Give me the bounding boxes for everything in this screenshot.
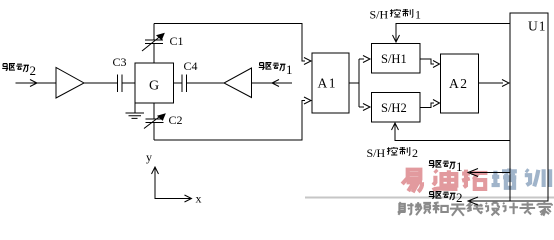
wire: 驱动1 output from U1 with arrow [468,169,510,177]
label 驱动2 (top left) [2,63,36,78]
watermark logo char 训 [525,169,550,187]
watermark underline [305,197,554,199]
watermark logo char 培 [492,169,517,188]
svg-text:S/H1: S/H1 [381,52,407,66]
svg-text:1: 1 [415,8,421,22]
svg-text:x: x [196,192,202,206]
svg-text:2: 2 [412,146,418,160]
watermark logo char 拓 [462,170,487,189]
variable capacitor C2 [144,103,183,140]
sample/hold block S/H1 [372,44,421,74]
controller block U1 [510,13,548,201]
wire: S/H control 1 from U1 down into S/H1 [393,24,511,43]
watermark logo char 易 [402,170,422,193]
svg-text:y: y [146,150,152,164]
svg-text:U1: U1 [528,19,547,34]
label S/H控制1 [370,8,422,22]
ground [126,103,145,118]
watermark slogan 射频和天线设计专家 [398,202,552,216]
svg-text:C4: C4 [184,59,198,73]
wire: A1 output split to S/H1 and S/H2 [349,56,370,111]
capacitor C3 [113,55,127,92]
svg-text:C2: C2 [169,113,183,127]
resonator block G [135,63,174,103]
wire: 驱动2 input stub with arrow [16,80,57,87]
wire: C4 to buffer 2 [187,82,225,84]
svg-text:2: 2 [456,190,463,205]
label 驱动1 (middle) [259,62,293,77]
sample/hold block S/H2 [372,93,421,123]
variable capacitor C1 [142,24,184,64]
svg-text:1: 1 [456,159,463,174]
watermark logo char 迪 [433,170,458,190]
svg-text:S/H: S/H [367,146,386,160]
wire: feedback from C1 top to A1 input 1 [154,24,311,65]
amplifier block A2 [441,54,479,113]
wire: S/H1 output to A2 [420,59,440,68]
svg-text:C1: C1 [170,34,184,48]
buffer amplifier (right-pointing triangle) [56,68,84,99]
svg-text:A2: A2 [449,76,469,91]
wire: 驱动2 output from U1 bottom edge with arrow [468,197,510,205]
wire: C2 bottom to A1 input 2 [154,97,311,140]
wire: A2 output to U1 [479,80,510,87]
svg-text:2: 2 [30,63,37,78]
svg-text:S/H: S/H [370,8,389,22]
amplifier block A1 [312,53,349,113]
svg-text:S/H2: S/H2 [381,101,407,115]
svg-text:G: G [149,79,159,94]
label 驱动1 (bottom right) [429,159,463,174]
label S/H控制2 [367,146,419,160]
wire: C3 to G [122,82,135,84]
svg-text:1: 1 [286,62,293,77]
wire: G to C4 [174,82,183,84]
label 驱动2 (bottom right) [429,190,463,205]
wire: 驱动1 input stub with arrow [252,80,293,87]
svg-text:C3: C3 [113,55,127,69]
wire: S/H2 output to A2 [420,100,440,108]
capacitor C4 [182,59,198,92]
wire: buffer to C3 [84,82,118,84]
coordinate axes x-y [146,150,202,206]
svg-text:A1: A1 [318,76,338,91]
wire: S/H control 2 from U1 up into S/H2 [392,123,511,141]
buffer amplifier 2 (left-pointing triangle) [224,68,252,98]
